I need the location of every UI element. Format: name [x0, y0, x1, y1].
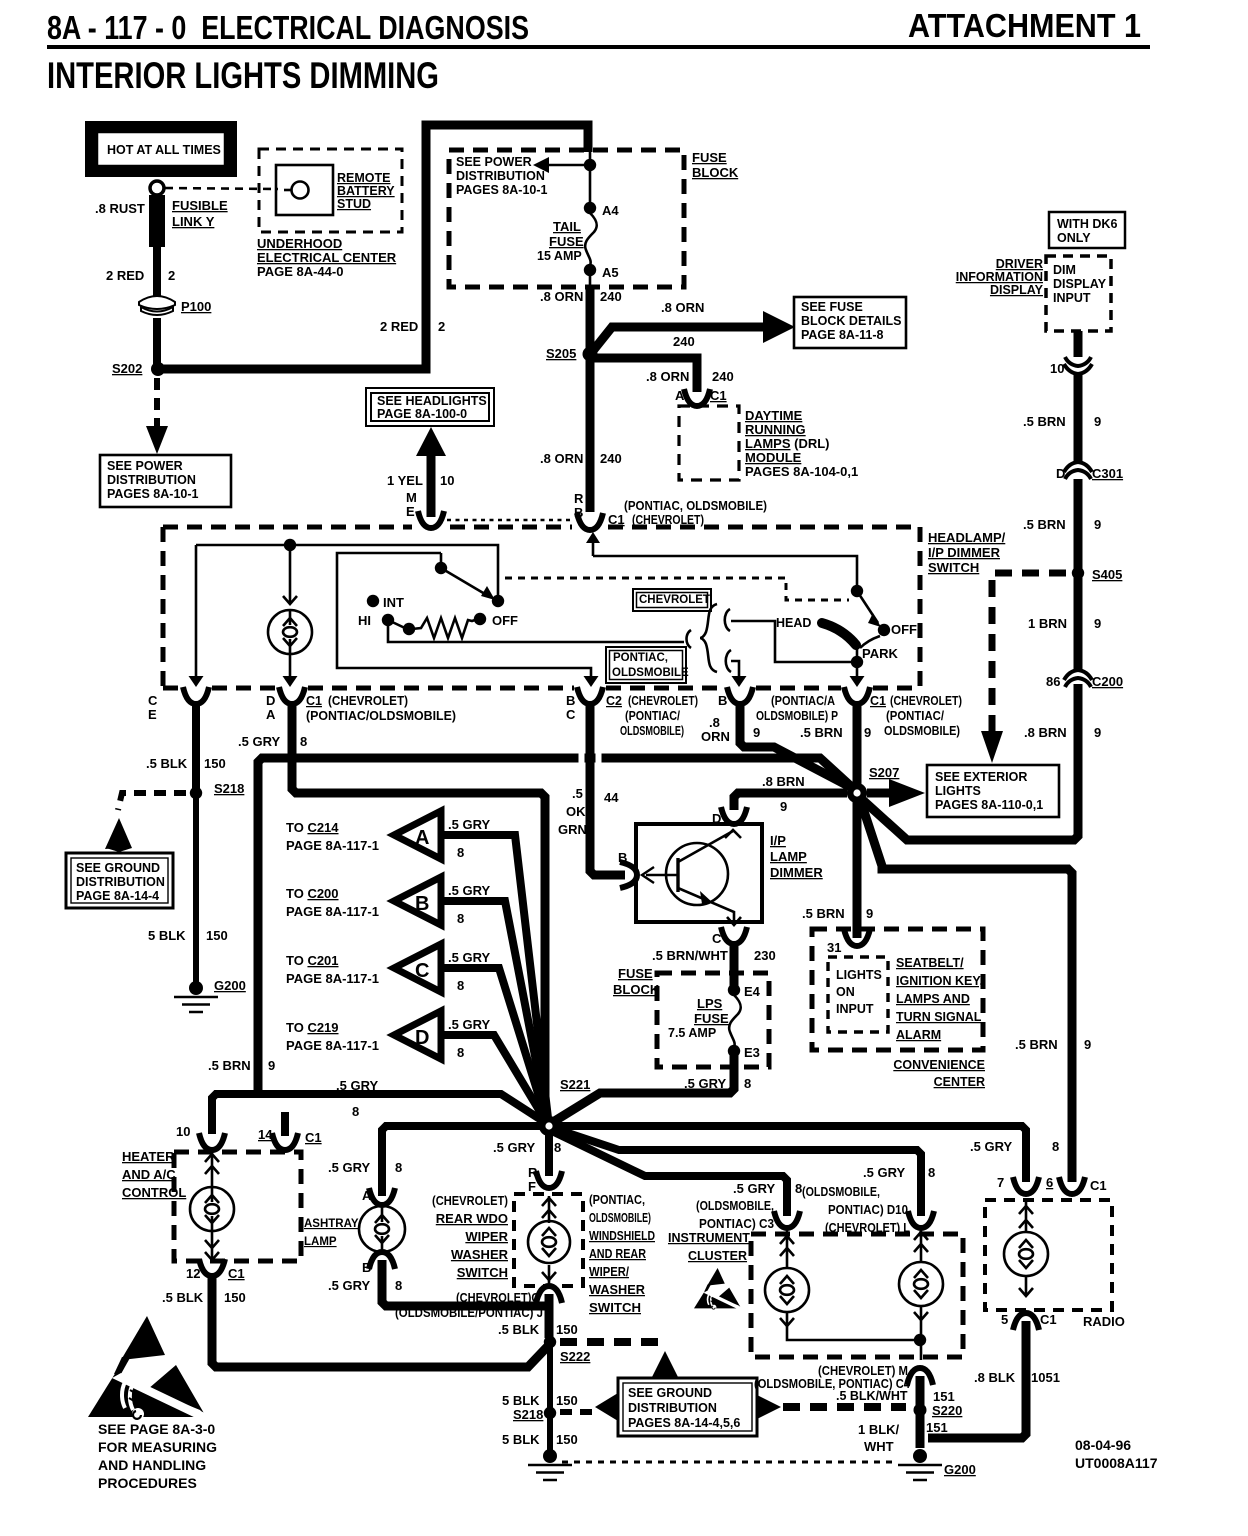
svg-text:WASHER: WASHER	[589, 1283, 645, 1297]
internal top feed line	[196, 545, 498, 598]
svg-text:REMOTE: REMOTE	[337, 171, 390, 185]
svg-text:(PONTIAC/OLDSMOBILE): (PONTIAC/OLDSMOBILE)	[306, 709, 456, 723]
svg-text:.5 GRY: .5 GRY	[863, 1165, 905, 1180]
svg-text:PAGE 8A-117-1: PAGE 8A-117-1	[286, 971, 379, 986]
svg-text:8: 8	[300, 734, 307, 749]
connector R/F	[536, 1171, 562, 1188]
svg-text:8: 8	[457, 978, 464, 993]
svg-text:C1: C1	[228, 1266, 245, 1281]
svg-text:DISTRIBUTION: DISTRIBUTION	[76, 875, 165, 889]
small arc upper (to head/park switch)	[725, 609, 730, 631]
splice S202 redraw	[151, 362, 165, 376]
svg-text:OFF: OFF	[891, 622, 917, 637]
svg-text:UT0008A117: UT0008A117	[1075, 1455, 1158, 1471]
splice S207 redraw on top	[847, 783, 867, 803]
svg-text:PAGE 8A-117-1: PAGE 8A-117-1	[286, 904, 379, 919]
wire E3 to S221	[553, 1054, 734, 1122]
svg-text:SEE GROUND: SEE GROUND	[76, 861, 160, 875]
svg-text:9: 9	[1094, 414, 1101, 429]
svg-text:BLOCK: BLOCK	[692, 165, 739, 180]
svg-text:S202: S202	[112, 361, 142, 376]
svg-text:OFF: OFF	[492, 613, 518, 628]
module box	[636, 824, 762, 922]
svg-text:PAGE 8A-14-4: PAGE 8A-14-4	[76, 889, 159, 903]
rheostat wiper	[388, 620, 407, 629]
svg-text:8: 8	[457, 845, 464, 860]
svg-text:.5 GRY: .5 GRY	[493, 1140, 535, 1155]
svg-text:(CHEVROLET)G: (CHEVROLET)G	[456, 1291, 540, 1305]
wire ashtray B to S222 vertical	[382, 1260, 545, 1306]
ground (left, unlabeled)	[543, 1449, 557, 1463]
svg-text:12: 12	[186, 1266, 200, 1281]
wire S205 to fuse block details arrow	[592, 327, 764, 352]
svg-text:A: A	[415, 827, 429, 849]
svg-text:LAMP: LAMP	[304, 1236, 337, 1248]
HOT AT ALL TIMES box	[85, 121, 237, 177]
svg-text:240: 240	[673, 334, 695, 349]
svg-text:.8 ORN: .8 ORN	[540, 289, 583, 304]
svg-text:B: B	[415, 893, 429, 915]
rail to ashtray lamp	[382, 1126, 540, 1196]
svg-text:DIMMER: DIMMER	[770, 865, 823, 880]
svg-text:SEE GROUND: SEE GROUND	[628, 1386, 712, 1400]
svg-text:PAGE 8A-44-0: PAGE 8A-44-0	[257, 264, 343, 279]
svg-text:8: 8	[744, 1076, 751, 1091]
svg-text:150: 150	[556, 1393, 578, 1408]
dimmer rheostat lamp	[289, 545, 292, 602]
svg-text:E4: E4	[744, 984, 761, 999]
wire HI to model brace	[388, 623, 684, 642]
svg-text:(PONTIAC/: (PONTIAC/	[625, 709, 680, 723]
ESD symbol small	[694, 1268, 742, 1310]
arrow into C/E	[189, 676, 204, 687]
connector D	[721, 807, 747, 824]
svg-text:BATTERY: BATTERY	[337, 184, 395, 198]
terminal A5	[584, 264, 596, 276]
svg-text:FUSE: FUSE	[692, 150, 727, 165]
svg-text:E: E	[148, 707, 157, 722]
svg-text:PAGES 8A-14-4,5,6: PAGES 8A-14-4,5,6	[628, 1416, 740, 1430]
svg-text:OLDSMOBILE): OLDSMOBILE)	[884, 724, 960, 738]
connector 5 C1	[1013, 1313, 1039, 1330]
connector B	[620, 862, 637, 888]
wire below fuse block to S205	[586, 287, 595, 352]
svg-text:(CHEVROLET) M: (CHEVROLET) M	[818, 1364, 908, 1378]
svg-text:8: 8	[554, 1140, 561, 1155]
wire radio pin5 to G200	[928, 1321, 1026, 1438]
svg-text:ELECTRICAL CENTER: ELECTRICAL CENTER	[257, 250, 397, 265]
svg-text:230: 230	[754, 948, 776, 963]
svg-text:.5 BRN: .5 BRN	[800, 725, 843, 740]
svg-text:C: C	[148, 693, 158, 708]
connector D C301	[1064, 462, 1092, 479]
svg-text:INPUT: INPUT	[836, 1002, 874, 1016]
wire S205 down to dimmer switch	[586, 356, 595, 512]
connector 86 C200	[1064, 670, 1092, 687]
svg-text:C: C	[415, 960, 429, 982]
svg-text:WITH DK6: WITH DK6	[1057, 217, 1117, 231]
svg-text:DISTRIBUTION: DISTRIBUTION	[456, 169, 545, 183]
splice S222	[544, 1336, 556, 1348]
connector 6 C1	[1059, 1177, 1085, 1194]
fusible link Y	[149, 195, 165, 247]
svg-text:INTERIOR LIGHTS DIMMING: INTERIOR LIGHTS DIMMING	[47, 55, 439, 96]
svg-text:A4: A4	[602, 203, 619, 218]
svg-text:9: 9	[1094, 517, 1101, 532]
terminal E3	[728, 1045, 740, 1057]
svg-text:TAIL: TAIL	[553, 219, 581, 234]
svg-text:C1: C1	[1090, 1178, 1107, 1193]
dashed from box to S220	[783, 1403, 906, 1411]
svg-text:6: 6	[1046, 1175, 1053, 1190]
svg-text:REAR WDO: REAR WDO	[436, 1211, 508, 1226]
svg-text:TO C201: TO C201	[286, 953, 339, 968]
svg-text:.5 BRN/WHT: .5 BRN/WHT	[652, 948, 728, 963]
svg-text:OK: OK	[566, 804, 586, 819]
svg-text:S221: S221	[560, 1077, 590, 1092]
svg-text:S218: S218	[214, 781, 244, 796]
inline connector 10	[1064, 357, 1092, 374]
svg-text:9: 9	[866, 906, 873, 921]
svg-text:.8 BRN: .8 BRN	[762, 774, 805, 789]
svg-text:SEATBELT/: SEATBELT/	[896, 956, 964, 970]
svg-text:C1: C1	[870, 694, 886, 708]
svg-text:ON: ON	[836, 985, 855, 999]
svg-text:SWITCH: SWITCH	[589, 1301, 641, 1315]
wire C/E down to S218	[192, 704, 200, 790]
svg-text:10: 10	[176, 1124, 190, 1139]
svg-text:1 YEL: 1 YEL	[387, 473, 423, 488]
header rule	[47, 45, 1150, 49]
svg-text:.5: .5	[572, 786, 583, 801]
svg-text:8: 8	[395, 1278, 402, 1293]
svg-text:8A - 117 - 0 ELECTRICAL DIAGN: 8A - 117 - 0 ELECTRICAL DIAGNOSIS	[47, 9, 529, 46]
head/park switch feed from C1 connector	[593, 556, 857, 587]
svg-text:OLDSMOBILE): OLDSMOBILE)	[589, 1211, 651, 1225]
radio dashed box	[985, 1200, 1112, 1310]
switch arm	[441, 568, 490, 597]
svg-text:C2: C2	[606, 694, 622, 708]
svg-text:5 BLK: 5 BLK	[502, 1432, 540, 1447]
svg-text:B: B	[618, 850, 627, 865]
svg-text:M: M	[406, 490, 417, 505]
dimmer box right edge	[918, 527, 923, 688]
connector 10	[199, 1133, 225, 1150]
svg-text:INSTRUMENT: INSTRUMENT	[668, 1231, 750, 1245]
svg-text:B: B	[566, 693, 575, 708]
headlight feed arrow up	[416, 427, 446, 456]
svg-text:OLDSMOBILE): OLDSMOBILE)	[620, 724, 684, 738]
svg-text:R: R	[528, 1165, 538, 1180]
splice S218 upper	[190, 787, 202, 799]
svg-text:FUSE: FUSE	[618, 966, 653, 981]
svg-text:(CHEVROLET): (CHEVROLET)	[432, 1194, 508, 1208]
svg-text:B: B	[362, 1260, 371, 1275]
dashed thin link between grounds	[562, 1461, 898, 1464]
svg-text:PAGE 8A-100-0: PAGE 8A-100-0	[377, 407, 467, 421]
svg-text:INFORMATION: INFORMATION	[956, 270, 1043, 284]
svg-text:.5 GRY: .5 GRY	[684, 1076, 726, 1091]
svg-text:(CHEVROLET): (CHEVROLET)	[890, 694, 962, 708]
svg-text:8: 8	[457, 911, 464, 926]
svg-text:14: 14	[258, 1127, 273, 1142]
svg-text:CHEVROLET: CHEVROLET	[639, 594, 710, 606]
svg-text:.5 GRY: .5 GRY	[448, 817, 490, 832]
svg-text:LINK Y: LINK Y	[172, 214, 215, 229]
DRL connector A C1	[684, 389, 710, 406]
svg-text:(PONTIAC/: (PONTIAC/	[886, 709, 944, 723]
svg-text:FUSIBLE: FUSIBLE	[172, 198, 228, 213]
svg-text:DISTRIBUTION: DISTRIBUTION	[628, 1401, 717, 1415]
dashed from S222 right	[560, 1338, 668, 1346]
connector A	[369, 1188, 395, 1205]
svg-text:P100: P100	[181, 299, 211, 314]
svg-text:.5 GRY: .5 GRY	[336, 1078, 378, 1093]
svg-text:8: 8	[1052, 1139, 1059, 1154]
connector D10/L	[908, 1211, 934, 1228]
transistor	[666, 843, 728, 905]
svg-text:CLUSTER: CLUSTER	[688, 1249, 747, 1263]
rail to instrument cluster C3	[554, 1132, 787, 1216]
svg-text:OLDSMOBILE: OLDSMOBILE	[612, 667, 689, 679]
svg-text:DISTRIBUTION: DISTRIBUTION	[107, 473, 196, 487]
svg-text:9: 9	[1084, 1037, 1091, 1052]
dimmer box top edge	[163, 525, 920, 530]
connector B/C C2	[577, 687, 603, 704]
svg-text:PAGE 8A-11-8: PAGE 8A-11-8	[801, 328, 883, 342]
head/park switch arm to OFF	[857, 591, 878, 623]
S207 branch to radio pin6	[859, 796, 1072, 1182]
svg-text:8: 8	[352, 1104, 359, 1119]
svg-text:150: 150	[556, 1322, 578, 1337]
svg-text:S207: S207	[869, 765, 899, 780]
PONTIAC OLDSMOBILE label box	[606, 647, 686, 683]
svg-text:F: F	[528, 1179, 536, 1194]
svg-text:DAYTIME: DAYTIME	[745, 408, 803, 423]
svg-text:B: B	[718, 693, 727, 708]
svg-text:CENTER: CENTER	[934, 1075, 985, 1089]
svg-text:(CHEVROLET): (CHEVROLET)	[628, 694, 698, 708]
svg-text:IGNITION KEY,: IGNITION KEY,	[896, 974, 983, 988]
connector B/P	[727, 687, 753, 704]
svg-text:FUSE: FUSE	[549, 234, 584, 249]
svg-text:S218: S218	[513, 1407, 543, 1422]
triangle A	[394, 811, 441, 859]
svg-text:7.5 AMP: 7.5 AMP	[668, 1026, 716, 1040]
svg-text:240: 240	[600, 289, 622, 304]
lights on input dashed box	[828, 957, 888, 1032]
terminal E4	[728, 984, 740, 996]
svg-text:1051: 1051	[1031, 1370, 1060, 1385]
splice S205 redraw	[583, 347, 598, 362]
splice S218 lower	[544, 1407, 556, 1419]
svg-text:LPS: LPS	[697, 996, 723, 1011]
svg-text:TURN SIGNAL: TURN SIGNAL	[896, 1010, 982, 1024]
svg-text:5: 5	[1001, 1312, 1008, 1327]
svg-text:.8 ORN: .8 ORN	[646, 369, 689, 384]
svg-text:.8: .8	[709, 715, 720, 730]
heater dashed box	[174, 1152, 301, 1261]
rail to instrument cluster D10	[556, 1129, 921, 1216]
svg-text:CONTROL: CONTROL	[122, 1185, 186, 1200]
svg-text:ASHTRAY: ASHTRAY	[304, 1218, 359, 1230]
SEE POWER DISTRIBUTION box (left)	[100, 455, 231, 507]
svg-text:31: 31	[827, 940, 841, 955]
dashed below S202 with arrow	[154, 378, 160, 427]
svg-text:WINDSHIELD: WINDSHIELD	[589, 1229, 655, 1243]
svg-text:.5 BRN: .5 BRN	[1015, 1037, 1058, 1052]
splice S202	[152, 363, 164, 375]
svg-text:.5 BRN: .5 BRN	[1023, 517, 1066, 532]
big model brace	[700, 604, 717, 672]
connector G/J	[536, 1286, 562, 1303]
svg-text:AND REAR: AND REAR	[589, 1247, 646, 1261]
connector 12 C1	[199, 1259, 225, 1276]
svg-text:PONTIAC,: PONTIAC,	[613, 652, 668, 664]
dashed to ground distribution arrow	[118, 793, 186, 810]
svg-text:S405: S405	[1092, 567, 1122, 582]
svg-text:8: 8	[395, 1160, 402, 1175]
svg-text:ONLY: ONLY	[1057, 231, 1091, 245]
svg-text:SWITCH: SWITCH	[928, 560, 979, 575]
svg-text:S222: S222	[560, 1349, 590, 1364]
splice S220	[914, 1404, 927, 1417]
connector C/E	[183, 687, 209, 704]
svg-text:2 RED: 2 RED	[106, 268, 144, 283]
wiper illumination lamp	[548, 1196, 551, 1284]
svg-text:S220: S220	[932, 1403, 962, 1418]
svg-text:.5 GRY: .5 GRY	[238, 734, 280, 749]
splice S207	[847, 783, 867, 803]
svg-text:E3: E3	[744, 1045, 760, 1060]
wire in fuse block	[589, 152, 592, 205]
svg-text:PAGES 8A-110-0,1: PAGES 8A-110-0,1	[935, 798, 1043, 812]
svg-text:8: 8	[457, 1045, 464, 1060]
svg-text:D: D	[266, 693, 275, 708]
svg-text:C: C	[566, 707, 576, 722]
svg-text:WIPER: WIPER	[465, 1229, 508, 1244]
svg-text:PARK: PARK	[862, 646, 898, 661]
svg-text:9: 9	[268, 1058, 275, 1073]
svg-text:WASHER: WASHER	[451, 1247, 509, 1262]
svg-text:DIM: DIM	[1053, 263, 1076, 277]
CHEVROLET label box	[633, 589, 711, 611]
svg-text:SEE HEADLIGHTS: SEE HEADLIGHTS	[377, 394, 487, 408]
wire hub down to wiper switch	[545, 1126, 553, 1176]
svg-text:GRN: GRN	[558, 822, 587, 837]
svg-text:.8 ORN: .8 ORN	[540, 451, 583, 466]
PARK wiper thick arc	[822, 623, 856, 645]
cluster lamp 1	[786, 1230, 789, 1268]
svg-text:ALARM: ALARM	[896, 1028, 941, 1042]
connector M/C4	[907, 1368, 933, 1385]
svg-text:A: A	[362, 1188, 372, 1203]
splice S205	[584, 348, 596, 360]
remote battery stud	[276, 165, 333, 215]
dashed branch from S405 to exterior lights	[992, 573, 1066, 732]
wire DIM display down	[1074, 331, 1083, 572]
svg-text:(OLDSMOBILE/PONTIAC) J: (OLDSMOBILE/PONTIAC) J	[395, 1306, 543, 1320]
svg-text:FOR MEASURING: FOR MEASURING	[98, 1439, 217, 1455]
svg-text:.5 BRN: .5 BRN	[208, 1058, 251, 1073]
svg-text:HEADLAMP/: HEADLAMP/	[928, 530, 1006, 545]
svg-text:A5: A5	[602, 265, 619, 280]
svg-text:C301: C301	[1092, 466, 1123, 481]
wire S202 right and up to fuse block	[157, 125, 588, 369]
svg-text:150: 150	[206, 928, 228, 943]
junction dot for dome lamp	[284, 539, 296, 551]
triangle D	[394, 1011, 441, 1059]
wire S218 to ground	[547, 1418, 553, 1450]
svg-text:C1: C1	[710, 388, 727, 403]
svg-text:9: 9	[753, 725, 760, 740]
TAIL FUSE element	[585, 213, 597, 266]
cluster dashed box	[751, 1234, 963, 1357]
connector C	[721, 927, 747, 944]
heater illumination lamp	[211, 1150, 214, 1187]
svg-text:BLOCK DETAILS: BLOCK DETAILS	[801, 314, 901, 328]
pivot of INT/HI/OFF switch	[440, 553, 443, 565]
svg-text:C200: C200	[1092, 674, 1123, 689]
grommet P100	[139, 296, 175, 309]
svg-text:.5 GRY: .5 GRY	[328, 1160, 370, 1175]
svg-text:44: 44	[604, 790, 619, 805]
UEC dashed box	[259, 149, 402, 232]
svg-text:150: 150	[204, 756, 226, 771]
svg-text:SEE POWER: SEE POWER	[456, 155, 532, 169]
connector B	[369, 1252, 395, 1269]
thin dotted variant line at top	[447, 519, 574, 522]
svg-text:.8 RUST: .8 RUST	[95, 201, 145, 216]
svg-text:2: 2	[438, 319, 445, 334]
svg-text:DRIVER: DRIVER	[996, 257, 1043, 271]
connector 7	[1013, 1177, 1039, 1194]
svg-text:D: D	[1056, 466, 1065, 481]
triangle B	[394, 877, 441, 925]
svg-text:TO C219: TO C219	[286, 1020, 339, 1035]
svg-text:WHT: WHT	[864, 1439, 894, 1454]
splice S221 redraw on top	[539, 1116, 559, 1136]
wire S218 to G200	[193, 796, 199, 985]
svg-text:RUNNING: RUNNING	[745, 422, 806, 437]
svg-text:MODULE: MODULE	[745, 450, 802, 465]
SEE GROUND DISTRIBUTION box (left)	[66, 853, 173, 908]
svg-text:HI: HI	[358, 613, 371, 628]
radio lamp	[1025, 1202, 1028, 1296]
svg-text:PAGES 8A-104-0,1: PAGES 8A-104-0,1	[745, 464, 858, 479]
svg-text:SEE POWER: SEE POWER	[107, 459, 183, 473]
svg-text:.5 GRY: .5 GRY	[448, 1017, 490, 1032]
svg-text:I/P: I/P	[770, 833, 786, 848]
svg-text:PAGE 8A-117-1: PAGE 8A-117-1	[286, 838, 379, 853]
OFF contact dot	[492, 595, 504, 607]
svg-text:CONVENIENCE: CONVENIENCE	[893, 1058, 985, 1072]
rail to radio pin7 (right)	[558, 1126, 1026, 1182]
svg-text:STUD: STUD	[337, 197, 371, 211]
svg-text:OLDSMOBILE) P: OLDSMOBILE) P	[756, 709, 838, 723]
svg-text:5 BLK: 5 BLK	[502, 1393, 540, 1408]
svg-text:.5 GRY: .5 GRY	[733, 1181, 775, 1196]
svg-text:9: 9	[864, 725, 871, 740]
connector 31	[844, 929, 870, 946]
svg-text:C1: C1	[1040, 1312, 1057, 1327]
svg-text:INPUT: INPUT	[1053, 291, 1091, 305]
connector C3	[774, 1211, 800, 1228]
splice S405	[1072, 567, 1084, 579]
svg-text:TO C214: TO C214	[286, 820, 339, 835]
svg-text:.5 BLK: .5 BLK	[162, 1290, 204, 1305]
arrow to see power distribution	[548, 164, 588, 167]
